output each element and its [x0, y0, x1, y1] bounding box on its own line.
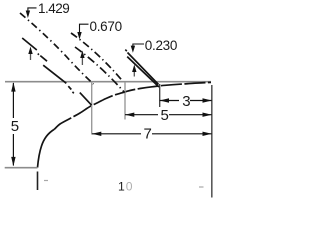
svg-text:1.429: 1.429 — [38, 1, 69, 16]
dimension 3 — [160, 100, 179, 102]
svg-text:5: 5 — [161, 107, 169, 124]
small gray dash bottom left — [44, 180, 48, 182]
up arrow for 0.230 — [133, 71, 135, 77]
dimension 5 horizontal — [125, 114, 158, 116]
double line lower — [127, 57, 159, 87]
svg-text:0.670: 0.670 — [90, 19, 122, 34]
diagonal dash-dot line D4 — [71, 33, 123, 82]
right vertical boundary line — [211, 85, 213, 198]
double line upper — [128, 53, 159, 85]
label 0.670 with leader — [80, 24, 89, 33]
dot above double line — [125, 50, 127, 52]
svg-text:0.230: 0.230 — [145, 38, 177, 53]
diagonal line D2 segment 1 — [22, 38, 37, 50]
D2 solid end to curve — [80, 93, 92, 106]
label 1.429 with leader — [28, 8, 37, 12]
bottom vertical tick below curve start — [37, 172, 39, 191]
up arrow for 1.429 — [30, 53, 32, 60]
up arrow for 0.670 — [81, 57, 83, 65]
svg-text:10: 10 — [118, 179, 133, 193]
extension line x=125 (5 dim) — [124, 82, 126, 120]
main curve — [38, 130, 55, 168]
label 0.230 with leader — [133, 44, 144, 47]
curve dashed continuation — [54, 82, 211, 129]
extension line x=91.7 (7 dim) — [91, 82, 93, 135]
diagonal dash-dot line M — [75, 47, 125, 93]
extension line x=159.5 (3 dim) — [159, 84, 161, 107]
D2 segment 3 — [43, 65, 66, 83]
D2 dash below axis — [68, 86, 71, 89]
left vertical dimension 5 — [12, 83, 14, 118]
D2 dot — [38, 54, 39, 55]
D2 dot below axis — [73, 92, 74, 94]
svg-text:5: 5 — [11, 118, 19, 135]
small gray dash bottom right — [199, 186, 204, 188]
bottom left extension line — [5, 167, 38, 169]
diagonal dash-dot line D1 — [20, 13, 94, 84]
axis horizontal line — [5, 81, 211, 83]
dimension 7 — [92, 133, 141, 135]
D2 segment 2 — [40, 56, 47, 62]
svg-text:3: 3 — [182, 93, 190, 110]
svg-text:7: 7 — [144, 126, 152, 143]
